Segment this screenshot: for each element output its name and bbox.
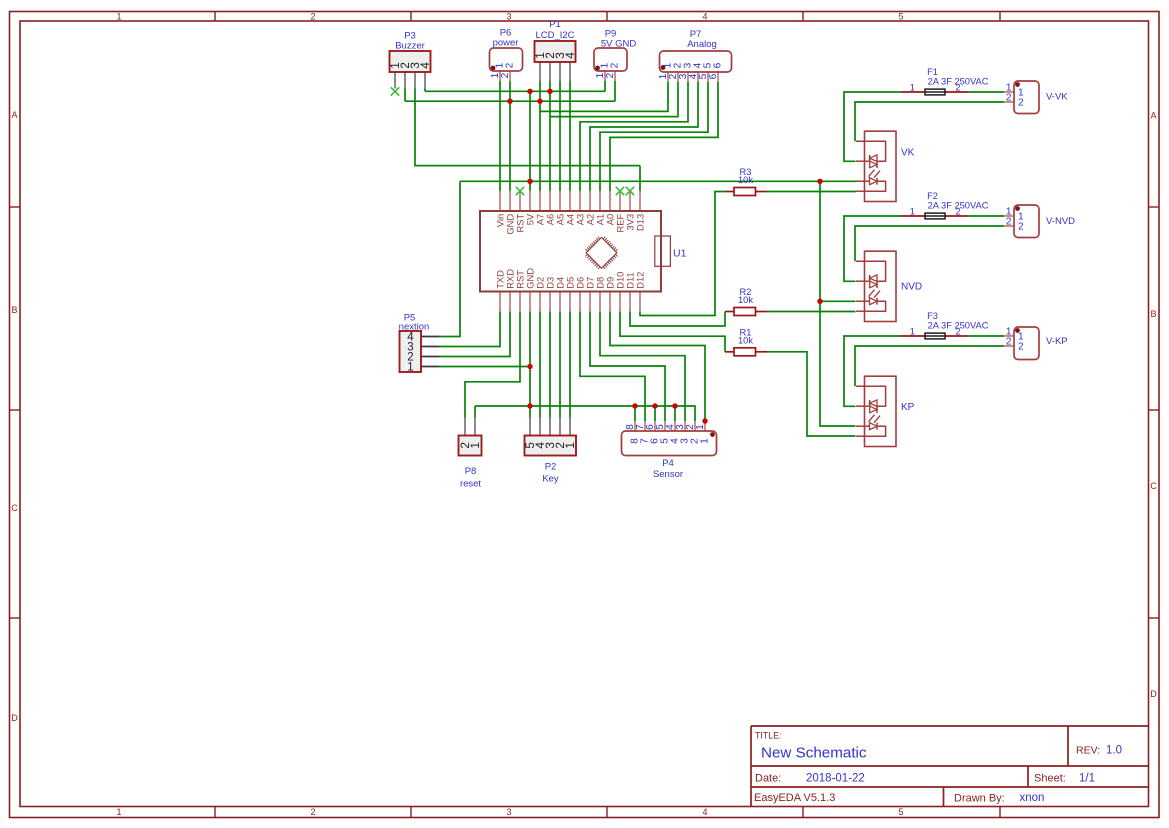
connector P6 power [490, 28, 523, 82]
wire P3.2 to GND rail [404, 89, 406, 102]
fuse F1 [901, 67, 989, 95]
junction [537, 99, 542, 104]
wire P4.6 drop [654, 406, 656, 421]
svg-text:6: 6 [708, 73, 719, 79]
junction [527, 179, 532, 184]
wire R2 to NVD pin D [767, 311, 856, 313]
wire P5.3 to TXD [439, 312, 500, 347]
svg-text:2: 2 [1006, 217, 1012, 228]
wire P7.3 stair to A3 [580, 82, 688, 191]
svg-text:5: 5 [898, 807, 903, 817]
connector V-VK [1004, 81, 1068, 114]
svg-text:2: 2 [310, 12, 315, 22]
svg-text:2: 2 [310, 807, 315, 817]
no-connect flag [516, 187, 524, 195]
wire D5 to P2.1 [569, 312, 571, 418]
svg-text:4: 4 [563, 52, 577, 59]
fuse F3 [901, 311, 989, 339]
svg-text:2: 2 [1018, 222, 1024, 233]
wire D4 to P2.2 [559, 312, 561, 418]
svg-text:KP: KP [901, 402, 915, 413]
svg-text:1: 1 [910, 207, 915, 217]
svg-text:5: 5 [898, 12, 903, 22]
wire F3 to KP pin B [844, 336, 901, 406]
svg-text:2: 2 [1018, 342, 1024, 353]
svg-text:reset: reset [460, 479, 481, 490]
connector P7 Analog [658, 29, 731, 82]
wire V-VK.2 to VK pin A [855, 102, 1004, 141]
wire F2 to V-NVD.1 [968, 215, 1004, 217]
svg-text:B: B [11, 305, 17, 315]
wire 5V rail y181 to VK [460, 180, 856, 182]
svg-text:2: 2 [1006, 93, 1012, 104]
title block [751, 726, 1149, 807]
svg-text:2: 2 [955, 327, 960, 337]
svg-text:New Schematic: New Schematic [761, 745, 867, 762]
svg-text:3: 3 [506, 807, 511, 817]
svg-text:4: 4 [418, 62, 432, 69]
svg-text:1: 1 [407, 362, 413, 374]
svg-text:D: D [11, 713, 18, 723]
wire GND rail y406 to P4.2 [475, 406, 695, 421]
mcu crystal [655, 236, 671, 266]
wire P1.2 to A6 [549, 81, 551, 191]
wire D2 to P2.4 [539, 312, 541, 418]
svg-text:6: 6 [712, 62, 723, 68]
svg-text:nextion: nextion [399, 322, 430, 333]
wire to NVD pin C [820, 300, 856, 302]
svg-text:Key: Key [542, 474, 559, 485]
svg-text:5V GND: 5V GND [601, 39, 637, 50]
junction [547, 89, 552, 94]
junction [527, 89, 532, 94]
wire D13 drop [639, 166, 641, 191]
wire P7.1 stair [540, 82, 668, 111]
no-connect flag [616, 187, 624, 195]
svg-text:1: 1 [695, 424, 706, 430]
junction [527, 364, 532, 369]
wire P8.1 drop [474, 406, 476, 418]
wire 5V rail y91 [425, 90, 605, 92]
svg-text:10k: 10k [738, 295, 753, 305]
svg-text:power: power [493, 38, 519, 49]
svg-text:V-NVD: V-NVD [1046, 216, 1075, 227]
svg-text:A: A [1150, 111, 1156, 121]
wire D12 to R3 [640, 192, 725, 316]
svg-text:10k: 10k [738, 336, 753, 346]
connector P9 5V GND [594, 29, 636, 82]
svg-text:D13: D13 [634, 214, 645, 231]
svg-text:1.0: 1.0 [1106, 745, 1122, 757]
wire P7.4 stair to A2 [590, 82, 698, 191]
wire F1 to V-VK.1 [968, 91, 1004, 93]
svg-text:B: B [1150, 309, 1156, 319]
resistor R1 [725, 328, 767, 356]
svg-text:D12: D12 [634, 272, 645, 289]
connector P8 reset [458, 418, 482, 490]
svg-text:EasyEDA V5.1.3: EasyEDA V5.1.3 [754, 792, 835, 804]
wire P5.4 riser [439, 181, 460, 336]
connector V-NVD [1004, 205, 1075, 238]
svg-text:2: 2 [1006, 337, 1012, 348]
junction [527, 403, 532, 408]
wire F3 to V-KP.1 [968, 335, 1004, 337]
svg-text:1: 1 [116, 807, 121, 817]
svg-text:2: 2 [504, 62, 515, 68]
wire P9.2 drop [614, 81, 616, 101]
junction [632, 403, 637, 408]
svg-text:1: 1 [116, 12, 121, 22]
junction [507, 99, 512, 104]
junction [702, 418, 707, 423]
wire R3 to VK pin D [767, 191, 856, 193]
svg-text:Sensor: Sensor [653, 469, 683, 480]
wire D8 to P4.3 [600, 312, 685, 422]
fuse F2 [901, 191, 989, 219]
wire P6.1 to Vin [499, 81, 501, 191]
svg-text:P2: P2 [545, 462, 557, 473]
svg-text:2: 2 [605, 72, 616, 78]
svg-text:F3: F3 [927, 311, 938, 321]
wire V-KP.2 to KP pin A [855, 346, 1004, 386]
svg-text:NVD: NVD [901, 282, 922, 293]
svg-text:C: C [1150, 481, 1157, 491]
wire D11 to R2 [630, 312, 725, 327]
wire GND vertical to P2.5 [529, 312, 531, 418]
wire GND rail y101 [405, 100, 615, 102]
wire P1.4 to A4 [569, 81, 571, 191]
svg-text:REV:: REV: [1076, 745, 1100, 757]
resistor R2 [725, 287, 767, 315]
svg-text:10k: 10k [738, 175, 753, 185]
svg-text:A: A [11, 110, 17, 120]
wire D3 to P2.3 [549, 312, 551, 418]
svg-text:2: 2 [609, 62, 620, 68]
svg-text:D: D [1150, 689, 1157, 699]
connector P3 Buzzer [388, 31, 432, 89]
svg-text:Drawn By:: Drawn By: [954, 793, 1005, 805]
wire D10 to R1 [620, 312, 725, 352]
no-connect flag [391, 87, 399, 95]
wire F2 to NVD pin B [844, 216, 901, 281]
resistor R3 [725, 167, 767, 195]
junction [652, 403, 657, 408]
svg-text:1/1: 1/1 [1079, 773, 1095, 785]
connector P5 nextion [399, 313, 439, 374]
svg-text:U1: U1 [673, 248, 687, 260]
wire P7.6 stair to A0 [610, 82, 718, 191]
svg-text:C: C [11, 503, 18, 513]
wire P4.4 drop [674, 406, 676, 421]
svg-text:P4: P4 [662, 458, 674, 469]
wire P7.2 stair [550, 82, 678, 117]
wire P5.2 to RXD [439, 312, 510, 357]
svg-text:F1: F1 [927, 67, 938, 77]
connector P4 Sensor [622, 421, 717, 480]
wire P1.3 to A5 [559, 81, 561, 191]
svg-text:xnon: xnon [1020, 792, 1045, 804]
wire P1.1 to A7 [539, 81, 541, 191]
optocoupler KP [856, 376, 915, 446]
svg-text:V-VK: V-VK [1046, 92, 1068, 103]
svg-text:2: 2 [955, 83, 960, 93]
svg-text:1: 1 [910, 327, 915, 337]
no-connect flag [626, 187, 634, 195]
wire F1 to VK pin B [844, 92, 901, 161]
svg-text:Analog: Analog [687, 39, 717, 50]
svg-text:2: 2 [1018, 98, 1024, 109]
svg-text:F2: F2 [927, 191, 938, 201]
wire RST to P8.2 [465, 312, 520, 418]
connector P1 LCD_I2C [533, 19, 577, 81]
svg-text:2: 2 [500, 72, 511, 78]
wire 5V pin drop [529, 91, 531, 191]
svg-text:1: 1 [699, 438, 710, 444]
wire 5V drop to KP pin C [820, 181, 856, 426]
svg-text:4: 4 [702, 12, 707, 22]
svg-text:2: 2 [955, 207, 960, 217]
svg-text:Buzzer: Buzzer [395, 41, 425, 52]
wire P7.5 stair to A1 [600, 82, 708, 191]
svg-text:1: 1 [468, 442, 482, 449]
svg-text:4: 4 [702, 807, 707, 817]
wire D9 to P4.1 [610, 312, 705, 422]
optocoupler VK [856, 131, 915, 201]
wire P3.3 to D13 [415, 89, 640, 166]
wire R1 to KP pin D [767, 352, 856, 436]
wire P9.1 drop [604, 81, 606, 91]
junction [817, 179, 822, 184]
wire D6 to P4.7 [580, 312, 645, 422]
connector V-KP [1004, 327, 1068, 360]
mcu U1 Arduino Nano [480, 191, 661, 312]
connector P2 Key [523, 418, 577, 485]
svg-text:P1: P1 [549, 19, 561, 30]
svg-text:Sheet:: Sheet: [1034, 773, 1066, 785]
svg-text:LCD_I2C: LCD_I2C [535, 30, 574, 41]
svg-text:Date:: Date: [755, 773, 781, 785]
optocoupler NVD [856, 251, 922, 321]
wire P6.2 to GND pin [509, 81, 511, 191]
svg-text:3: 3 [506, 12, 511, 22]
svg-text:1: 1 [910, 83, 915, 93]
mcu chip glyph [585, 237, 617, 269]
svg-text:1: 1 [563, 442, 577, 449]
wire V-NVD.2 to NVD pin A [855, 226, 1004, 261]
svg-text:V-KP: V-KP [1046, 336, 1068, 347]
junction [672, 403, 677, 408]
wire P4.8 drop [634, 406, 636, 421]
svg-text:VK: VK [901, 148, 915, 159]
wire P5.1 to GND net [439, 366, 530, 368]
svg-text:2018-01-22: 2018-01-22 [806, 773, 865, 785]
junction [817, 299, 822, 304]
wire P3.4 down [424, 89, 426, 92]
wire D7 to P4.5 [590, 312, 665, 422]
svg-text:TITLE:: TITLE: [755, 731, 781, 741]
svg-text:P8: P8 [465, 466, 477, 477]
